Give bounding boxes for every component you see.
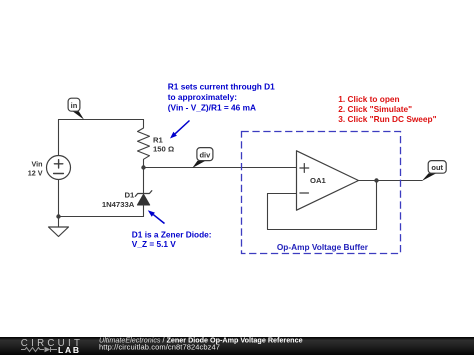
svg-text:LAB: LAB — [58, 345, 81, 355]
wire Vin- to bottom junction — [58, 180, 60, 217]
wire op-amp - input — [268, 193, 297, 195]
annotation blue text D1 — [132, 230, 212, 250]
logo mini circuit: wire — [21, 347, 57, 352]
banner footer bar — [0, 337, 474, 355]
svg-text:in: in — [71, 101, 78, 110]
resistor R1 — [138, 120, 150, 168]
svg-text:R1: R1 — [153, 135, 164, 144]
svg-text:out: out — [431, 163, 443, 172]
svg-text:D1 is a Zener Diode:: D1 is a Zener Diode: — [132, 230, 212, 240]
annotation blue text R1 — [168, 82, 275, 113]
zener diode D1 — [135, 191, 152, 217]
svg-text:to approximately:: to approximately: — [168, 92, 237, 102]
svg-text:R1 sets current through D1: R1 sets current through D1 — [168, 82, 275, 92]
svg-text:div: div — [199, 150, 211, 159]
wire top (in node to R1 top) — [59, 119, 144, 121]
svg-text:1. Click to open: 1. Click to open — [338, 94, 399, 104]
wire bottom (junction to D1 anode) — [59, 216, 144, 218]
svg-text:V_Z = 5.1 V: V_Z = 5.1 V — [132, 239, 177, 249]
annotation red instructions — [338, 94, 436, 124]
wire left vertical (top to Vin+) — [58, 120, 60, 156]
node label out — [422, 161, 446, 181]
svg-text:3. Click "Run DC Sweep": 3. Click "Run DC Sweep" — [338, 114, 436, 124]
logo mini circuit: diode — [45, 347, 51, 352]
svg-text:Vin: Vin — [31, 159, 42, 168]
CircuitLab logo wordmark — [21, 338, 83, 355]
annotation arrow to D1 — [148, 210, 165, 223]
wire middle (div wire, R1 bottom to op-amp + input) — [144, 167, 297, 169]
junction node at Vin-/ground/bottom wire — [56, 214, 60, 218]
svg-text:D1: D1 — [124, 191, 135, 200]
svg-text:http://circuitlab.com/cn8t7824: http://circuitlab.com/cn8t7824cbz47 — [99, 342, 220, 351]
ground — [49, 217, 69, 237]
junction node div (R1/D1/wire) — [141, 165, 145, 169]
label Vin value — [28, 159, 43, 177]
svg-text:2. Click "Simulate": 2. Click "Simulate" — [338, 104, 412, 114]
node label div — [192, 148, 213, 168]
label D1 value — [102, 191, 135, 209]
svg-text:OA1: OA1 — [310, 176, 327, 185]
svg-text:150 Ω: 150 Ω — [153, 144, 174, 153]
junction node at op-amp output/feedback — [374, 178, 378, 182]
svg-text:Op-Amp Voltage Buffer: Op-Amp Voltage Buffer — [277, 242, 369, 252]
svg-text:(Vin - V_Z)/R1 = 46 mA: (Vin - V_Z)/R1 = 46 mA — [168, 102, 256, 112]
annotation arrow to R1 — [170, 121, 190, 139]
svg-text:1N4733A: 1N4733A — [102, 200, 135, 209]
wire feedback (output to - input) — [268, 181, 377, 230]
op-amp OA1 — [297, 151, 359, 210]
voltage source Vin — [47, 156, 71, 180]
svg-text:12 V: 12 V — [28, 169, 43, 178]
node label in — [68, 98, 84, 119]
dashed box Op-Amp Voltage Buffer — [242, 132, 401, 254]
label R1 value — [153, 135, 174, 153]
wire output — [359, 180, 423, 182]
wire D1 cathode lead — [143, 168, 145, 194]
